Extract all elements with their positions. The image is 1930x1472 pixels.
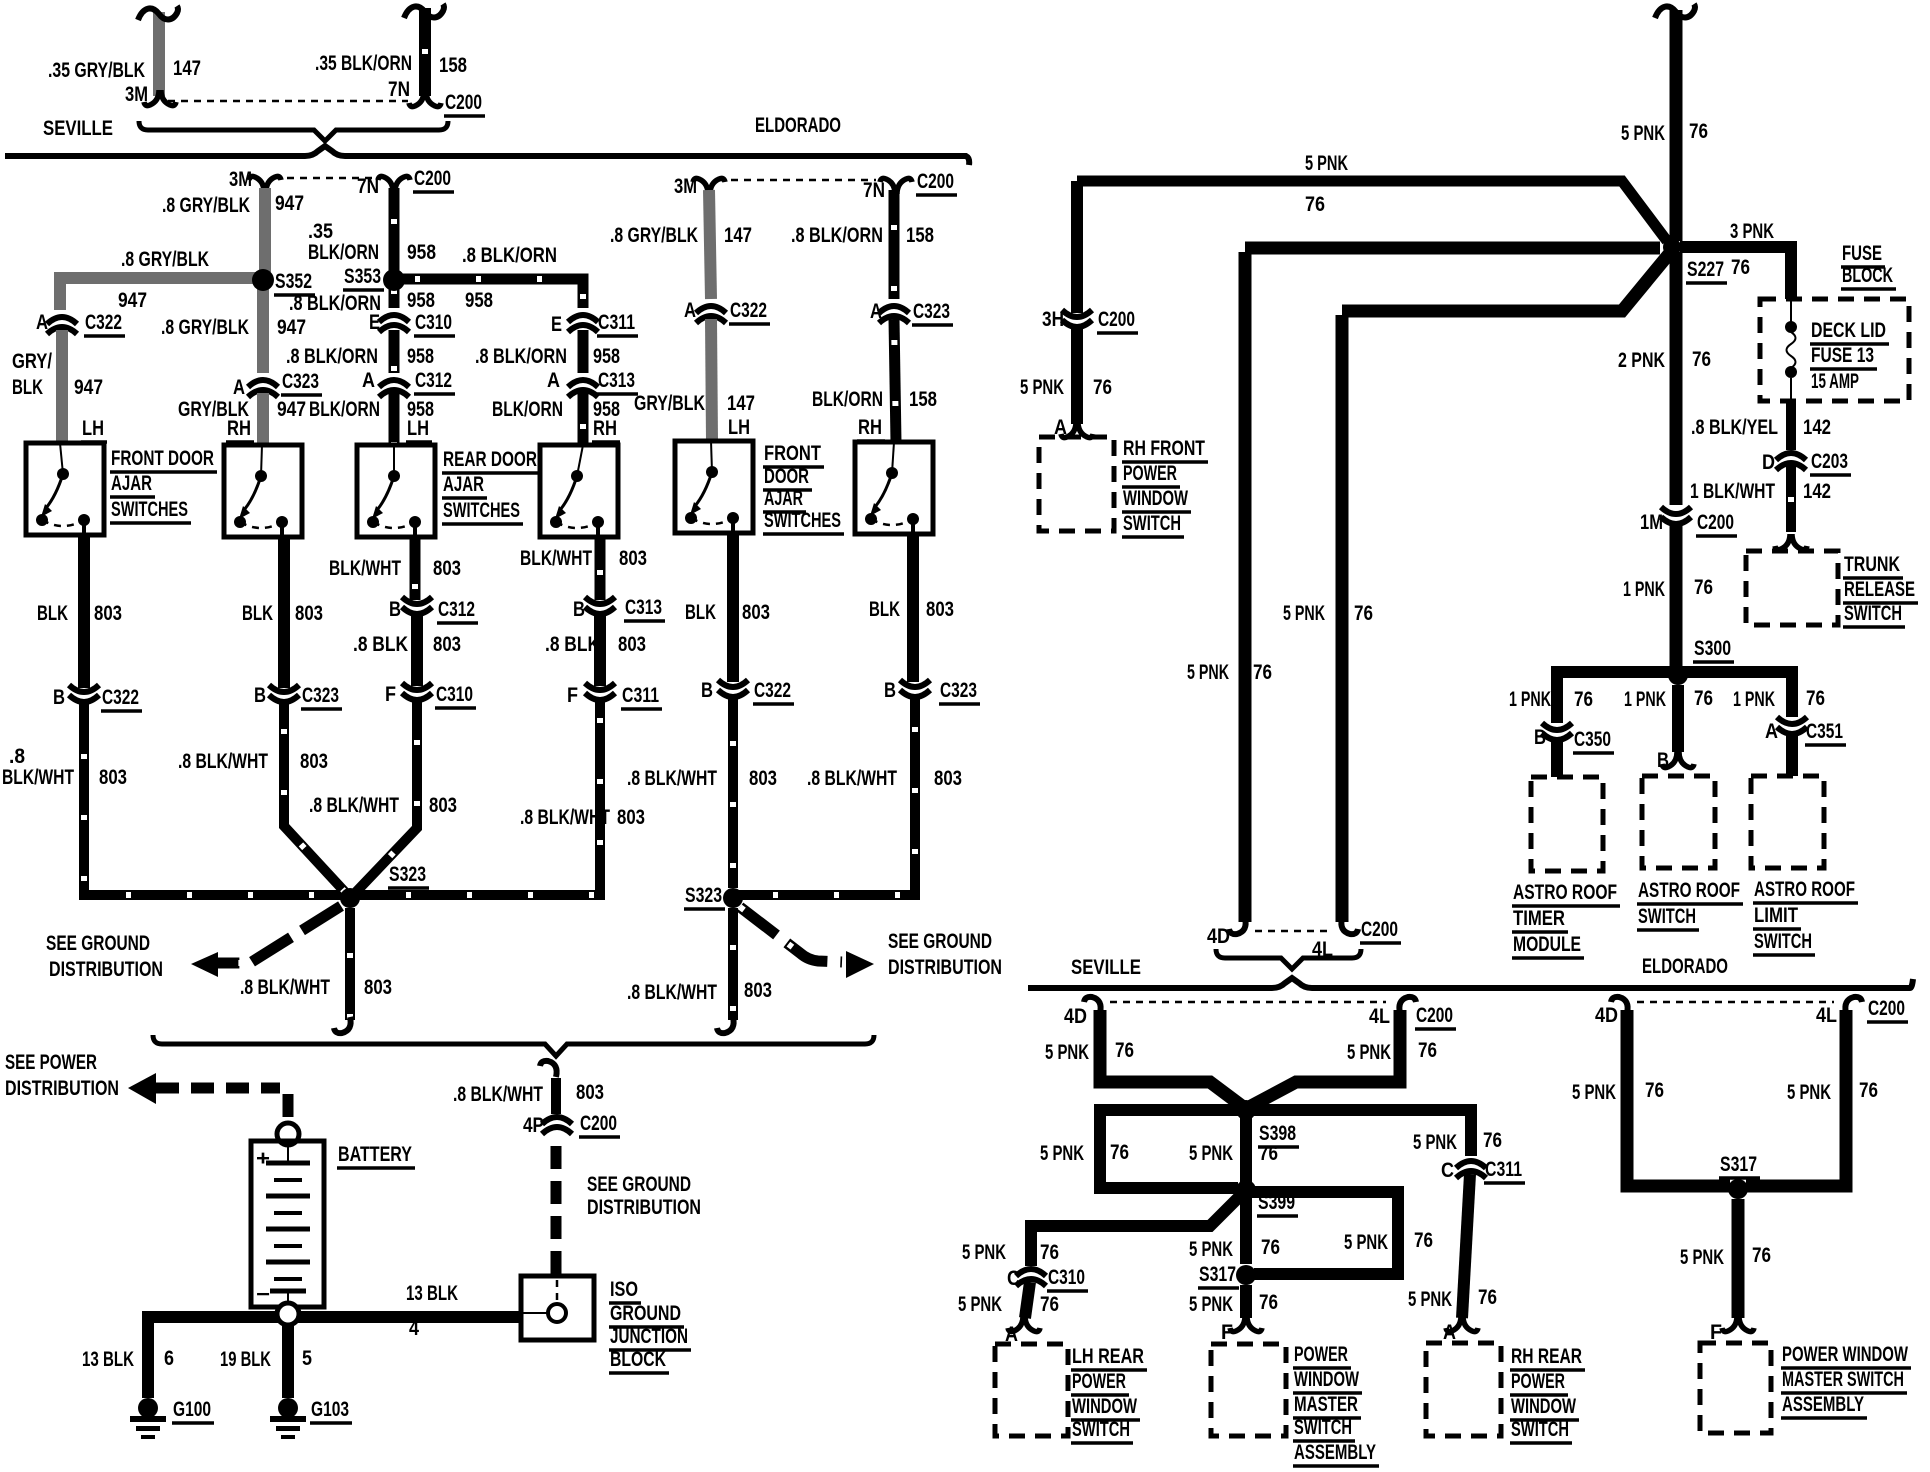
connector C200 pin 1M: [1661, 507, 1691, 524]
svg-text:AJAR: AJAR: [443, 473, 484, 496]
svg-text:4L: 4L: [1816, 1004, 1837, 1027]
svg-text:76: 76: [1418, 1039, 1437, 1062]
terminal A arrow LH rear: [1008, 1316, 1040, 1332]
wire 158 .8 BLK/ORN to C323-A (Eldorado): [889, 190, 900, 299]
wire 803 .8 BLK/WHT S323 down (Eldorado): [728, 908, 738, 1020]
svg-text:D: D: [1762, 451, 1775, 474]
svg-text:.8 BLK/ORN: .8 BLK/ORN: [791, 224, 883, 247]
svg-text:1M: 1M: [1640, 511, 1663, 534]
svg-text:803: 803: [618, 633, 646, 656]
svg-text:.8 GRY/BLK: .8 GRY/BLK: [121, 248, 209, 271]
svg-text:5 PNK: 5 PNK: [1344, 1231, 1388, 1254]
svg-text:BATTERY: BATTERY: [338, 1143, 412, 1166]
svg-text:BLK/ORN: BLK/ORN: [492, 398, 563, 421]
svg-text:803: 803: [742, 601, 770, 624]
svg-text:POWER: POWER: [1123, 462, 1177, 485]
svg-text:SWITCHES: SWITCHES: [764, 509, 841, 532]
wire 76 5 PNK C200-4D to S398: [1100, 1010, 1242, 1106]
svg-text:803: 803: [429, 794, 457, 817]
svg-text:1 BLK/WHT: 1 BLK/WHT: [1690, 480, 1775, 503]
svg-text:76: 76: [1692, 348, 1711, 371]
svg-text:F: F: [385, 683, 396, 706]
svg-text:SWITCH: SWITCH: [1511, 1418, 1569, 1441]
svg-text:DISTRIBUTION: DISTRIBUTION: [888, 956, 1002, 979]
wire 803 BLK from RH switch (Eldorado): [907, 536, 919, 682]
svg-text:POWER: POWER: [1072, 1370, 1126, 1393]
fuse block dashed box: [1760, 299, 1909, 401]
svg-text:C200: C200: [445, 91, 482, 114]
brace ground collector line: [153, 1035, 874, 1056]
wire 947 .8 GRY/BLK S352 to C323-A: [257, 289, 269, 373]
svg-text:3H: 3H: [1042, 308, 1064, 331]
splice S323 (Seville): [340, 888, 360, 908]
svg-text:5 PNK: 5 PNK: [1045, 1041, 1089, 1064]
ground G103: [270, 1398, 306, 1439]
svg-text:803: 803: [364, 976, 392, 999]
terminal F arrow master switch (Eldorado): [1722, 1316, 1754, 1332]
wire 142 1 BLK/WHT C203 to trunk release: [1786, 466, 1796, 532]
wire 76 5 PNK S398 to C311-C: [1252, 1110, 1471, 1156]
svg-text:SWITCH: SWITCH: [1754, 930, 1812, 953]
svg-text:S323: S323: [389, 863, 426, 886]
svg-text:C312: C312: [438, 598, 475, 621]
wire 803 BLK/WHT from rear LH switch: [410, 537, 421, 600]
svg-text:4: 4: [409, 1317, 419, 1340]
wire 76 1 PNK S300 to C351-A: [1678, 672, 1792, 717]
svg-text:B: B: [701, 679, 713, 702]
svg-text:B: B: [389, 598, 401, 621]
svg-text:LH: LH: [82, 417, 104, 440]
svg-text:FRONT: FRONT: [764, 442, 821, 465]
wire 958 .8 BLK/ORN S353 to C310-E: [389, 289, 400, 308]
battery BATTERY: [251, 1141, 324, 1307]
RH rear power window switch box: [1426, 1343, 1501, 1436]
svg-text:6: 6: [164, 1347, 174, 1370]
svg-text:947: 947: [74, 376, 103, 399]
svg-text:BLK/WHT: BLK/WHT: [329, 557, 401, 580]
svg-text:958: 958: [407, 241, 436, 264]
svg-text:76: 76: [1752, 1244, 1771, 1267]
svg-text:G100: G100: [173, 1398, 211, 1421]
svg-text:GRY/: GRY/: [12, 350, 52, 373]
svg-text:.8 BLK/WHT: .8 BLK/WHT: [627, 767, 717, 790]
wire 147 GRY/BLK to LH front switch (Eldorado): [711, 319, 712, 441]
svg-text:C313: C313: [598, 369, 635, 392]
svg-text:158: 158: [439, 54, 467, 77]
ISO ground junction block: [521, 1276, 594, 1340]
svg-text:POWER WINDOW: POWER WINDOW: [1782, 1343, 1908, 1366]
svg-text:C311: C311: [1485, 1158, 1522, 1181]
svg-text:158: 158: [906, 224, 934, 247]
svg-text:WINDOW: WINDOW: [1072, 1395, 1137, 1418]
dashed line 4D-4L (Eldorado bottom): [1637, 1001, 1834, 1004]
arrow see power distribution: [128, 1073, 156, 1104]
svg-text:958: 958: [407, 345, 434, 368]
wire 958 .8 BLK/ORN C311 to C313: [578, 330, 589, 373]
svg-text:DISTRIBUTION: DISTRIBUTION: [587, 1196, 701, 1219]
svg-text:1 PNK: 1 PNK: [1623, 578, 1665, 601]
divider line Seville/Eldorado (right page): [1028, 978, 1913, 988]
svg-text:76: 76: [1253, 661, 1272, 684]
svg-text:C350: C350: [1574, 728, 1611, 751]
svg-text:76: 76: [1354, 602, 1373, 625]
wire 76 5 PNK lower long branch: [1342, 254, 1669, 311]
svg-text:A: A: [36, 311, 48, 334]
svg-text:13 BLK: 13 BLK: [406, 1282, 458, 1305]
svg-text:.8 BLK: .8 BLK: [545, 633, 600, 656]
svg-text:SEVILLE: SEVILLE: [43, 117, 113, 140]
wire 803 .8 BLK/WHT C311-F to S323: [350, 701, 600, 895]
svg-text:C311: C311: [598, 311, 635, 334]
svg-text:SWITCHES: SWITCHES: [443, 499, 520, 522]
svg-text:158: 158: [909, 388, 937, 411]
svg-text:A: A: [684, 299, 696, 322]
astro roof timer module box: [1531, 777, 1603, 871]
svg-text:BLK: BLK: [37, 602, 68, 625]
splice S300: [1668, 665, 1688, 685]
svg-text:76: 76: [1040, 1241, 1059, 1264]
svg-text:B: B: [53, 686, 65, 709]
svg-text:4D: 4D: [1595, 1004, 1618, 1027]
svg-text:5 PNK: 5 PNK: [1347, 1041, 1391, 1064]
svg-text:5 PNK: 5 PNK: [962, 1241, 1006, 1264]
svg-text:C200: C200: [1098, 308, 1135, 331]
svg-text:5 PNK: 5 PNK: [1787, 1081, 1831, 1104]
wire 947 GRY/BLK to LH front door switch: [56, 330, 68, 443]
svg-text:.8 BLK/WHT: .8 BLK/WHT: [807, 767, 897, 790]
wire 76 1 PNK S300 to C350-B: [1557, 672, 1678, 723]
svg-text:76: 76: [1731, 256, 1750, 279]
hook bottom of S323 drop (Eldorado): [717, 1017, 734, 1033]
svg-text:76: 76: [1093, 376, 1112, 399]
wire 958 BLK/ORN to rear LH switch: [389, 393, 400, 445]
svg-text:B: B: [254, 684, 266, 707]
hook 4L (Eldorado bottom): [1845, 997, 1862, 1013]
connector C350 pin B: [1542, 723, 1572, 740]
wire 76 5 PNK C310-C to LH rear switch: [1025, 1282, 1030, 1318]
switch RH rear door ajar (Seville): [540, 445, 618, 537]
wire 803 .8 BLK from C312-B to C310-F: [411, 615, 423, 686]
dashed connector line 3M-7N: [168, 100, 408, 103]
svg-text:5 PNK: 5 PNK: [1283, 602, 1325, 625]
wire 947 GRY/BLK to RH front door switch: [257, 393, 269, 445]
svg-text:.8 GRY/BLK: .8 GRY/BLK: [161, 316, 249, 339]
wire 958 .8 BLK/ORN C310 to C312: [389, 330, 400, 373]
svg-text:803: 803: [576, 1081, 604, 1104]
wire 958 .35 BLK/ORN from 7N to S353: [389, 188, 400, 272]
svg-text:WINDOW: WINDOW: [1123, 487, 1188, 510]
connector C323 pin A (Eldorado): [879, 306, 909, 323]
svg-text:G103: G103: [311, 1398, 349, 1421]
hook 4L wire end: [1341, 918, 1358, 934]
svg-text:76: 76: [1689, 120, 1708, 143]
svg-text:.8 BLK/ORN: .8 BLK/ORN: [286, 345, 378, 368]
wire 5 19 BLK to G103: [282, 1325, 294, 1398]
svg-text:947: 947: [277, 398, 306, 421]
svg-text:76: 76: [1115, 1039, 1134, 1062]
svg-text:.8 BLK/WHT: .8 BLK/WHT: [309, 794, 399, 817]
dashed line 3M-7N (Eldorado): [718, 179, 876, 182]
svg-text:5 PNK: 5 PNK: [1020, 376, 1064, 399]
svg-text:142: 142: [1803, 480, 1831, 503]
svg-text:F: F: [567, 684, 578, 707]
svg-text:SWITCH: SWITCH: [1638, 905, 1696, 928]
svg-text:ISO: ISO: [610, 1278, 638, 1301]
connector C322 pin B: [69, 685, 99, 702]
svg-text:RELEASE: RELEASE: [1844, 578, 1915, 601]
svg-text:147: 147: [173, 57, 201, 80]
svg-text:.8 BLK/ORN: .8 BLK/ORN: [289, 292, 381, 315]
svg-text:SWITCHES: SWITCHES: [111, 498, 188, 521]
svg-text:5 PNK: 5 PNK: [1572, 1081, 1616, 1104]
svg-text:803: 803: [99, 766, 127, 789]
svg-text:DECK LID: DECK LID: [1811, 319, 1886, 342]
wire 803 BLK/WHT from rear RH switch: [595, 537, 606, 600]
wire 76 5 PNK S399 to S317: [1240, 1198, 1252, 1264]
svg-text:.8 BLK/YEL: .8 BLK/YEL: [1691, 416, 1778, 439]
svg-text:ASTRO ROOF: ASTRO ROOF: [1513, 881, 1617, 904]
connector C323 pin A (Seville RH front): [248, 380, 278, 397]
svg-text:19 BLK: 19 BLK: [220, 1348, 271, 1371]
svg-text:SWITCH: SWITCH: [1844, 602, 1902, 625]
svg-text:5 PNK: 5 PNK: [1040, 1142, 1084, 1165]
connector C310 pin E: [379, 315, 409, 332]
svg-text:DISTRIBUTION: DISTRIBUTION: [5, 1077, 119, 1100]
svg-text:RH REAR: RH REAR: [1511, 1345, 1582, 1368]
wire to ground distribution (right arrow): [740, 907, 842, 962]
LH rear power window switch box: [995, 1344, 1068, 1436]
connector C311 pin F: [585, 683, 615, 700]
svg-text:B: B: [1534, 726, 1546, 749]
svg-text:3 PNK: 3 PNK: [1730, 220, 1774, 243]
wire 958 BLK/ORN to rear RH switch: [578, 393, 589, 445]
svg-text:76: 76: [1259, 1142, 1278, 1165]
svg-text:4P: 4P: [523, 1114, 544, 1137]
arrow see ground distribution (right): [846, 951, 874, 978]
svg-text:.35 GRY/BLK: .35 GRY/BLK: [48, 59, 145, 82]
connector C311 pin E: [568, 315, 598, 332]
svg-text:A: A: [547, 369, 560, 392]
terminal A arrow: [1061, 422, 1093, 438]
svg-text:C203: C203: [1811, 450, 1848, 473]
svg-text:1 PNK: 1 PNK: [1733, 688, 1775, 711]
splice S317: [1236, 1265, 1256, 1285]
terminal 7N arrow: [409, 91, 441, 107]
switch LH front door ajar (Eldorado): [675, 441, 753, 533]
connector C322 pin A (Seville LH front): [47, 317, 77, 334]
connector C312 pin B: [402, 597, 432, 614]
connector C312 pin A: [379, 380, 409, 397]
svg-text:C: C: [1441, 1159, 1454, 1182]
wire 76 5 PNK S398 left loop to S399: [1100, 1110, 1246, 1188]
svg-text:C200: C200: [414, 167, 451, 190]
svg-text:2 PNK: 2 PNK: [1618, 349, 1665, 372]
svg-text:ELDORADO: ELDORADO: [755, 114, 841, 137]
svg-text:C200: C200: [1361, 918, 1398, 941]
svg-text:FUSE: FUSE: [1842, 242, 1882, 265]
wire 6 13 BLK to G100: [142, 1317, 154, 1398]
connector C322 pin A (Eldorado): [696, 306, 726, 323]
svg-text:.8 BLK/ORN: .8 BLK/ORN: [462, 244, 557, 267]
terminal 3M arrow up: [249, 176, 281, 192]
svg-text:76: 76: [1574, 688, 1593, 711]
wire 803 BLK from LH front switch: [78, 537, 90, 688]
wire 76 5 PNK S317 to master switch (Eldorado): [1732, 1199, 1745, 1318]
svg-text:B: B: [884, 679, 896, 702]
terminal 7N arrow up (Eldorado): [880, 178, 912, 194]
switch LH front door ajar (Seville): [26, 443, 104, 535]
svg-text:ELDORADO: ELDORADO: [1642, 955, 1728, 978]
fuse DECK LID FUSE 13: [1790, 301, 1792, 322]
svg-text:C311: C311: [622, 684, 659, 707]
wire 803 .8 BLK from C313-B to C311-F: [594, 615, 606, 686]
wire 803 .8 BLK/WHT C310-F to S323: [356, 701, 417, 892]
dashed line 3M-7N (Seville main): [274, 177, 380, 180]
terminal B arrow astro roof switch: [1662, 752, 1694, 768]
power window master switch assembly box: [1211, 1344, 1286, 1436]
svg-text:BLK: BLK: [869, 598, 900, 621]
svg-text:SEE GROUND: SEE GROUND: [587, 1173, 691, 1196]
wire 803 .8 BLK/WHT C322-B to S323: [84, 703, 345, 895]
arrow see ground distribution (left): [191, 952, 218, 977]
svg-text:5 PNK: 5 PNK: [1189, 1142, 1233, 1165]
brace Seville header: [139, 121, 448, 141]
svg-text:MASTER SWITCH: MASTER SWITCH: [1782, 1368, 1904, 1391]
svg-text:5 PNK: 5 PNK: [1680, 1246, 1724, 1269]
svg-text:C200: C200: [1697, 511, 1734, 534]
wire 803 BLK from RH front switch: [278, 537, 290, 688]
svg-text:947: 947: [277, 316, 306, 339]
trunk release switch box: [1746, 551, 1838, 625]
svg-text:S227: S227: [1687, 258, 1724, 281]
ground G100: [130, 1398, 166, 1439]
svg-text:LH: LH: [407, 417, 429, 440]
splice S317 (Eldorado): [1728, 1179, 1748, 1199]
svg-text:E: E: [369, 311, 380, 334]
svg-text:803: 803: [617, 806, 645, 829]
svg-text:SEE GROUND: SEE GROUND: [46, 932, 150, 955]
svg-text:.35: .35: [308, 220, 333, 243]
splice S353: [383, 269, 405, 291]
hook 4L (Seville bottom): [1399, 997, 1416, 1013]
svg-text:15 AMP: 15 AMP: [1811, 370, 1859, 393]
wire to battery + (dashed): [156, 1083, 280, 1094]
switch RH front door ajar (Seville): [224, 445, 302, 537]
svg-text:+: +: [256, 1147, 270, 1170]
wire 1 PNK C351 to astro roof limit switch: [1786, 735, 1798, 776]
svg-text:947: 947: [118, 289, 147, 312]
svg-text:FUSE 13: FUSE 13: [1811, 344, 1874, 367]
svg-text:803: 803: [934, 767, 962, 790]
wire 142 .8 BLK/YEL fuse to C203-D: [1786, 401, 1796, 450]
svg-text:A: A: [362, 369, 375, 392]
terminal 3M arrow up (Eldorado): [693, 178, 725, 194]
svg-text:WINDOW: WINDOW: [1294, 1368, 1359, 1391]
svg-text:BLK/WHT: BLK/WHT: [520, 547, 592, 570]
svg-text:RH FRONT: RH FRONT: [1123, 437, 1205, 460]
wire 76 1 PNK S300 to astro roof switch: [1672, 685, 1684, 752]
svg-text:ASTRO ROOF: ASTRO ROOF: [1638, 879, 1740, 902]
connector C200 pin 4P: [542, 1117, 572, 1134]
wire 803 .8 BLK/WHT C323-B to S323: [284, 703, 345, 892]
svg-text:SEE POWER: SEE POWER: [5, 1051, 97, 1074]
connector C311 pin C: [1456, 1161, 1486, 1178]
svg-text:76: 76: [1414, 1229, 1433, 1252]
wire 958 .8 BLK/ORN S353 to C311-E: [394, 279, 583, 308]
connector C310 pin F: [402, 683, 432, 700]
wire to battery + vertical (dashed): [283, 1094, 294, 1120]
svg-text:C310: C310: [415, 311, 452, 334]
wire 76 5 PNK S399 to C310-C: [1031, 1194, 1242, 1266]
wire 76 5 PNK S317 to master switch: [1240, 1285, 1252, 1318]
svg-text:C322: C322: [730, 299, 767, 322]
svg-text:5: 5: [302, 1347, 312, 1370]
svg-text:803: 803: [619, 547, 647, 570]
wire 4 13 BLK battery negative bus: [142, 1311, 521, 1323]
svg-text:C310: C310: [1048, 1266, 1085, 1289]
svg-text:AJAR: AJAR: [764, 487, 803, 510]
brace Seville (right page): [1216, 949, 1361, 969]
splice S323 (Eldorado): [723, 888, 743, 908]
svg-text:.35 BLK/ORN: .35 BLK/ORN: [315, 52, 412, 75]
svg-text:RH: RH: [227, 417, 251, 440]
svg-text:MODULE: MODULE: [1513, 933, 1581, 956]
svg-text:13 BLK: 13 BLK: [82, 1348, 134, 1371]
svg-text:C: C: [1007, 1267, 1020, 1290]
svg-text:TRUNK: TRUNK: [1844, 553, 1900, 576]
svg-text:C313: C313: [625, 596, 662, 619]
switch RH front door ajar (Eldorado): [855, 442, 933, 534]
svg-text:C200: C200: [580, 1112, 617, 1135]
svg-text:1 PNK: 1 PNK: [1624, 688, 1666, 711]
svg-text:LIMIT: LIMIT: [1754, 904, 1798, 927]
svg-text:803: 803: [926, 598, 954, 621]
svg-text:C351: C351: [1806, 720, 1843, 743]
svg-text:.8 BLK/WHT: .8 BLK/WHT: [453, 1083, 543, 1106]
svg-text:C323: C323: [940, 679, 977, 702]
hook 4D (Seville bottom): [1084, 997, 1101, 1013]
hook 4D (Eldorado bottom): [1611, 997, 1628, 1013]
svg-text:ASTRO ROOF: ASTRO ROOF: [1754, 878, 1855, 901]
svg-text:BLK/ORN: BLK/ORN: [308, 241, 379, 264]
svg-text:RH: RH: [593, 417, 617, 440]
dashed line 4D-4L: [1255, 930, 1327, 933]
svg-text:5 PNK: 5 PNK: [1621, 122, 1665, 145]
svg-text:76: 76: [1261, 1236, 1280, 1259]
terminal A arrow RH rear: [1446, 1316, 1478, 1332]
svg-text:803: 803: [433, 633, 461, 656]
svg-text:5 PNK: 5 PNK: [1305, 152, 1348, 175]
svg-text:803: 803: [295, 602, 323, 625]
svg-text:BLOCK: BLOCK: [1842, 264, 1893, 287]
svg-text:SEE GROUND: SEE GROUND: [888, 930, 992, 953]
wire 76 5 PNK S399 right loop to S317: [1252, 1192, 1398, 1274]
wire 76 5 PNK C311-C to RH rear switch: [1462, 1174, 1470, 1318]
wavy break top of 158 wire: [404, 4, 444, 18]
svg-text:GROUND: GROUND: [610, 1302, 681, 1325]
svg-text:C200: C200: [1868, 997, 1905, 1020]
svg-text:76: 76: [1478, 1286, 1497, 1309]
svg-text:BLOCK: BLOCK: [610, 1348, 666, 1371]
svg-text:76: 76: [1259, 1291, 1278, 1314]
svg-text:S353: S353: [344, 265, 381, 288]
wire 76 5 PNK C200-4L to S398: [1251, 1010, 1400, 1106]
svg-text:ASSEMBLY: ASSEMBLY: [1294, 1441, 1376, 1464]
svg-text:AJAR: AJAR: [111, 472, 152, 495]
connector C200 pin 3H: [1062, 310, 1092, 327]
astro roof switch box: [1642, 776, 1715, 868]
svg-text:.8 BLK/WHT: .8 BLK/WHT: [240, 976, 330, 999]
